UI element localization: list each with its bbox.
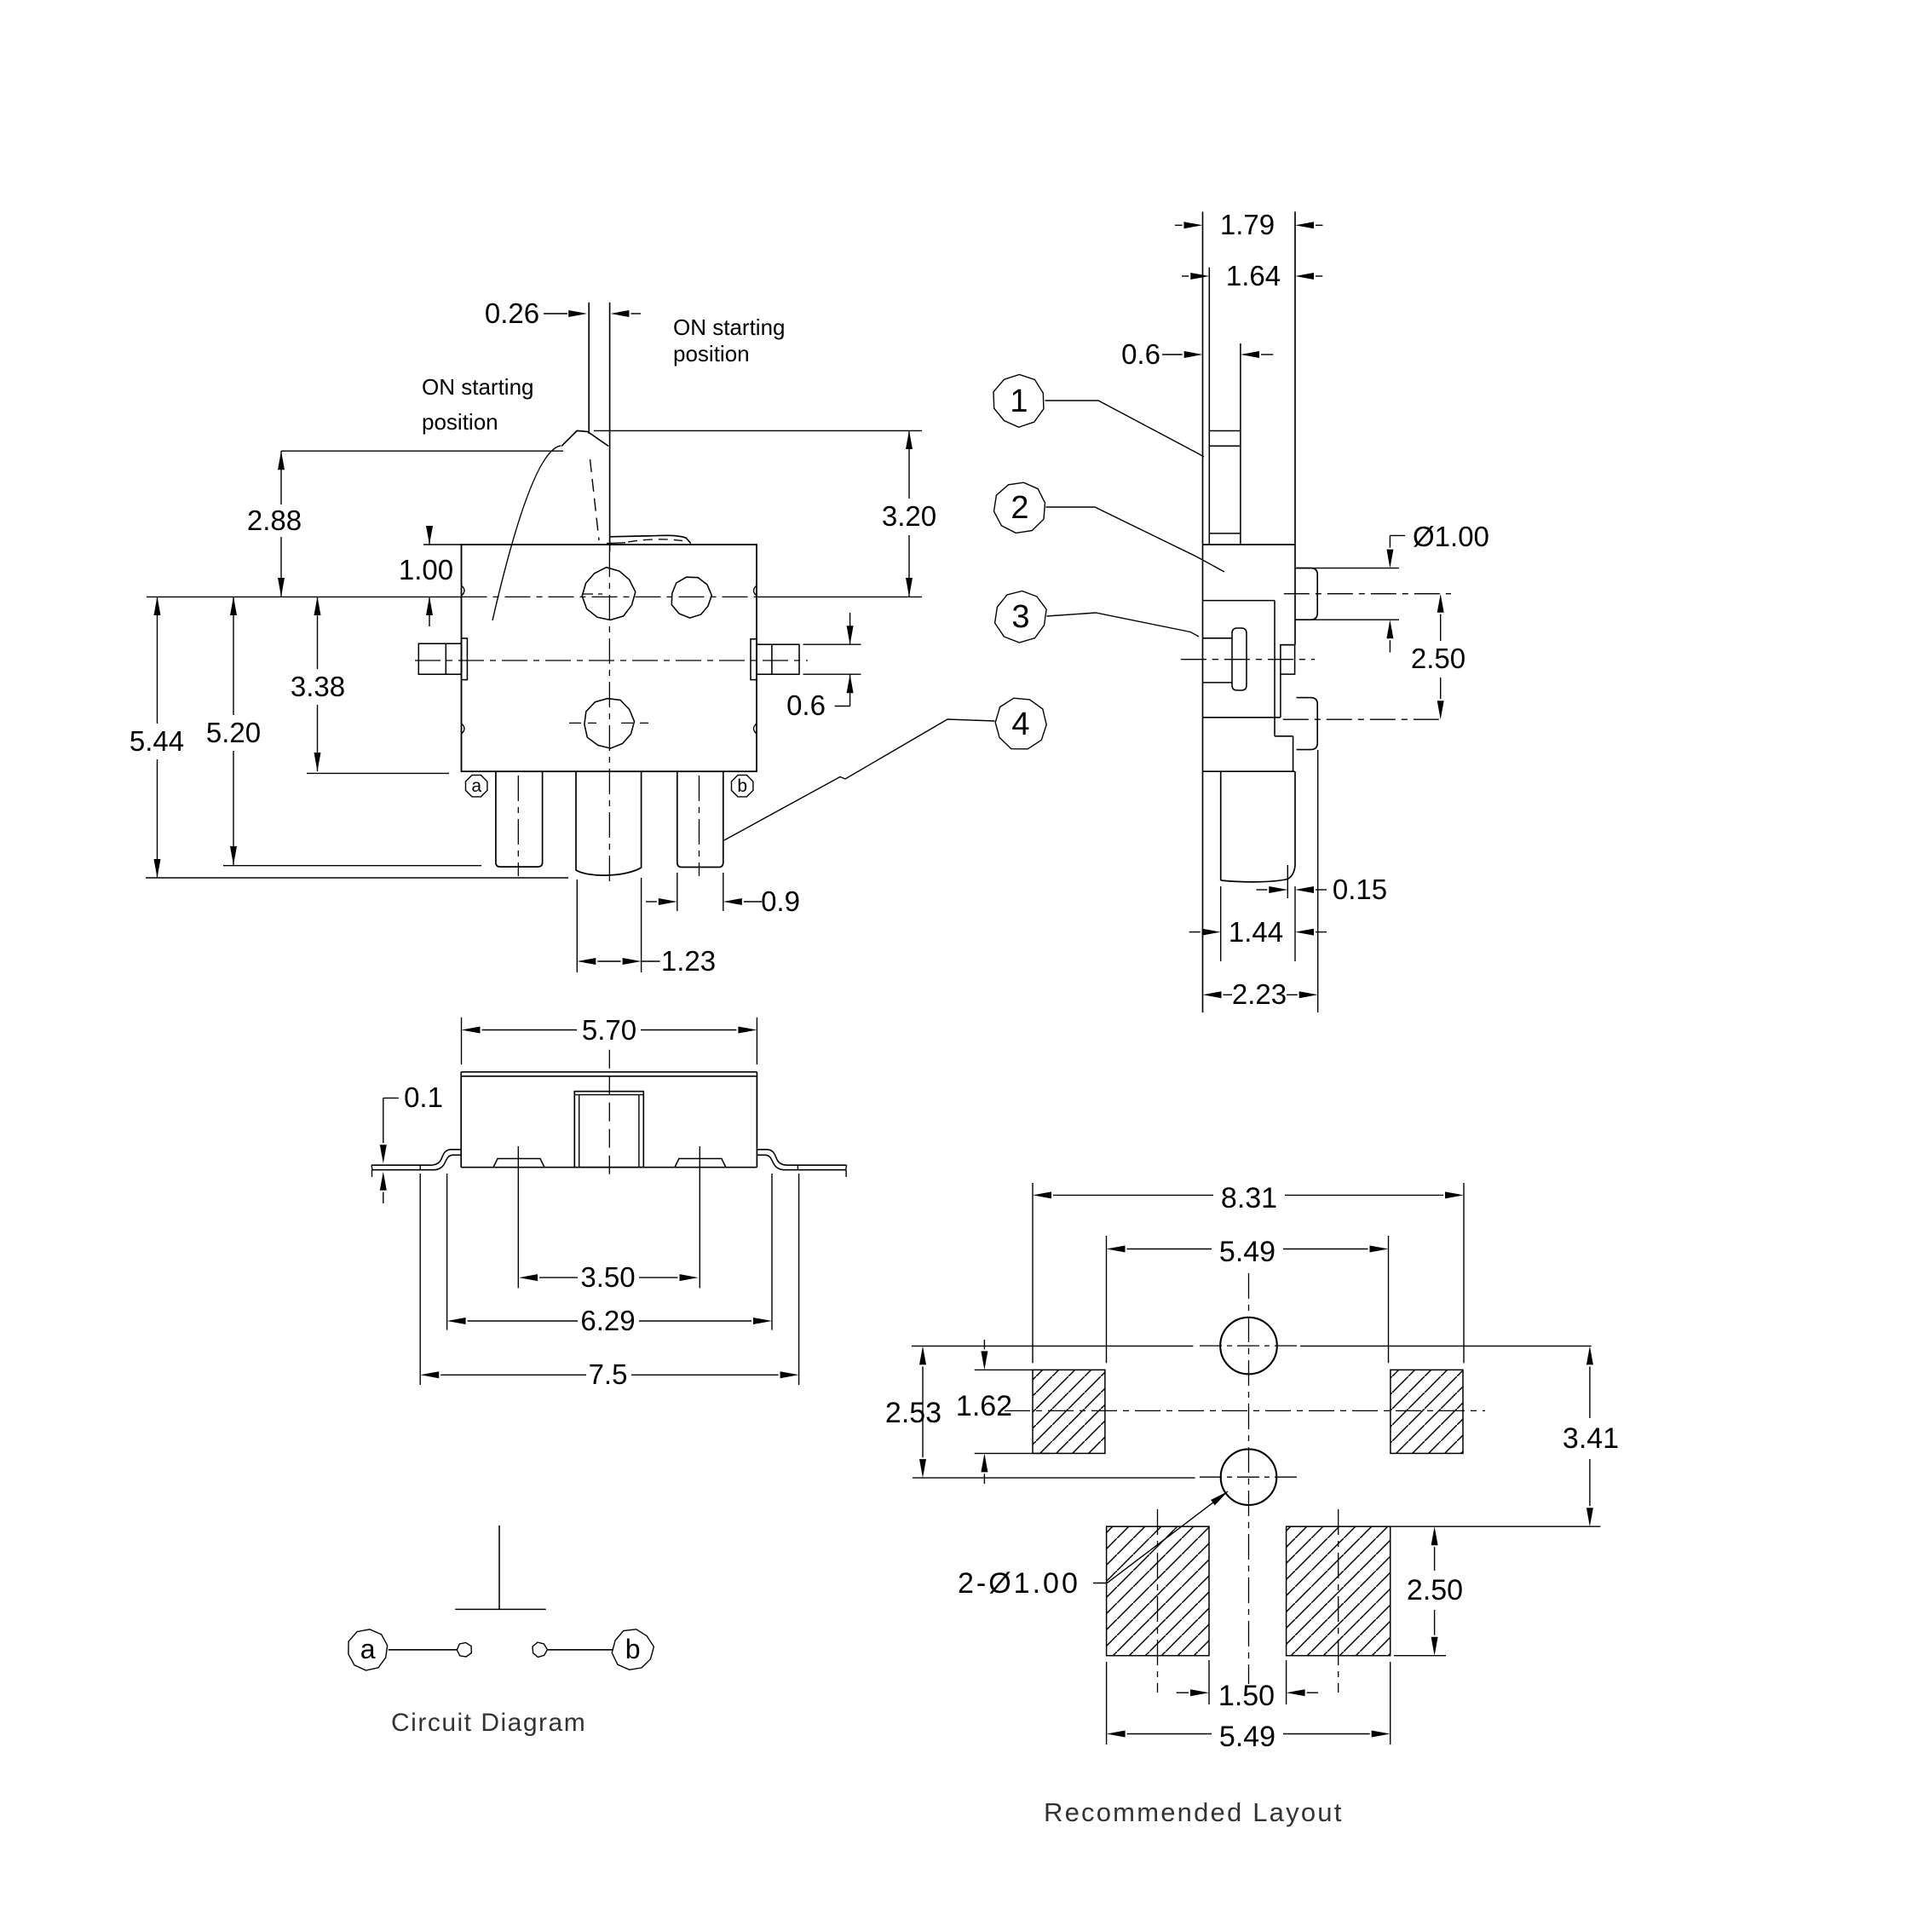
svg-text:Ø1.00: Ø1.00 — [1413, 521, 1489, 552]
front view: terminal label b — [732, 776, 753, 797]
svg-text:b: b — [625, 1634, 641, 1664]
svg-text:0.6: 0.6 — [1121, 338, 1160, 370]
svg-text:3.50: 3.50 — [580, 1261, 635, 1293]
side view: body outline — [1203, 211, 1296, 1012]
front view: right side tab — [751, 639, 799, 680]
svg-text:6.29: 6.29 — [580, 1305, 635, 1336]
svg-text:ON starting: ON starting — [422, 374, 534, 400]
label: ON starting position (right) — [673, 314, 786, 366]
front view: top cap mound — [607, 535, 691, 543]
svg-text:3.38: 3.38 — [291, 671, 345, 702]
svg-text:2: 2 — [1011, 490, 1028, 526]
dimension 0.6 (right tab) — [786, 613, 861, 721]
front view: left side tab — [418, 638, 467, 680]
svg-text:2.53: 2.53 — [885, 1397, 941, 1429]
svg-text:2.50: 2.50 — [1407, 1574, 1463, 1606]
layout: top-left pad (hatched) — [1033, 1370, 1105, 1453]
side view: contact spring hook — [1181, 628, 1315, 690]
caption: Circuit Diagram — [391, 1709, 586, 1737]
label 2-Dia1.00 with leader — [958, 1489, 1229, 1600]
dimension 1.23 — [577, 878, 716, 977]
dimension 2.53 (layout) — [885, 1346, 941, 1478]
layout: hole circles — [1220, 1318, 1277, 1505]
dimension 0.15 (side) — [1256, 874, 1387, 905]
label: ON starting position (left) — [422, 374, 534, 435]
bottom view: terminal bumps — [493, 1146, 726, 1288]
svg-text:0.15: 0.15 — [1333, 874, 1387, 905]
dimension 5.20 — [206, 597, 481, 866]
front view: centerlines — [147, 597, 922, 660]
bottom view: right mounting bracket — [757, 1150, 846, 1177]
dimension 0.1 (bracket thickness) — [380, 1081, 443, 1203]
front view: lever arm (ON starting position) — [492, 303, 610, 620]
dimension 1.44 (side) — [1189, 886, 1327, 961]
dimension 5.49 bottom (layout) — [1107, 1662, 1391, 1753]
dimension 3.20 — [594, 430, 936, 597]
dimension 3.41 (layout) — [1563, 1346, 1619, 1526]
dimension 1.50 (layout) — [1177, 1660, 1318, 1712]
front view: terminal label a — [466, 776, 487, 797]
dimension 1.64 (side) — [1182, 260, 1322, 291]
balloon 4 with leader — [724, 698, 1046, 840]
svg-text:3.41: 3.41 — [1563, 1422, 1619, 1455]
svg-text:5.49: 5.49 — [1219, 1236, 1275, 1268]
svg-text:5.20: 5.20 — [206, 717, 261, 748]
dimension 5.70 — [462, 1014, 757, 1064]
dimension 5.44 — [130, 597, 568, 878]
svg-text:ON starting: ON starting — [673, 314, 786, 340]
svg-text:a: a — [471, 776, 481, 796]
svg-text:5.44: 5.44 — [130, 725, 184, 757]
svg-text:a: a — [360, 1634, 376, 1664]
bottom view: left mounting bracket — [371, 1150, 461, 1177]
dimension 6.29 — [447, 1174, 772, 1336]
svg-text:2.50: 2.50 — [1411, 643, 1465, 674]
dimension 7.5 — [420, 1174, 798, 1390]
svg-text:3.20: 3.20 — [882, 500, 936, 532]
svg-text:position: position — [422, 409, 498, 435]
svg-text:position: position — [673, 341, 750, 366]
layout: reference lines — [912, 1346, 1601, 1655]
svg-text:1: 1 — [1010, 384, 1028, 419]
dimension Dia 1.00 (side) — [1297, 521, 1489, 653]
svg-text:1.23: 1.23 — [661, 945, 716, 977]
layout: top-right pad (hatched) — [1391, 1370, 1463, 1453]
balloon 1 with leader — [993, 375, 1204, 458]
circuit diagram: contact gap — [457, 1642, 547, 1658]
front view: switch body outline — [423, 545, 757, 771]
layout: centerlines — [1005, 1273, 1485, 1693]
side view: lower terminal pin — [1283, 698, 1441, 750]
svg-text:7.5: 7.5 — [589, 1358, 628, 1390]
svg-text:0.6: 0.6 — [786, 689, 826, 721]
circuit diagram: terminal b — [547, 1629, 654, 1670]
balloon 2 with leader — [994, 482, 1225, 572]
dimension 2.50 (layout) — [1407, 1526, 1463, 1656]
svg-text:Recommended Layout: Recommended Layout — [1044, 1797, 1344, 1827]
dimension 1.79 (side) — [1175, 209, 1323, 240]
dimension 0.26 — [485, 297, 641, 329]
dimension 2.88 — [247, 451, 563, 597]
svg-text:0.1: 0.1 — [404, 1081, 443, 1113]
svg-text:Circuit Diagram: Circuit Diagram — [391, 1709, 586, 1737]
svg-text:2.88: 2.88 — [247, 505, 302, 536]
balloon 3 with leader — [995, 591, 1199, 643]
svg-text:b: b — [737, 776, 747, 796]
layout: bottom-left pad (hatched) — [1107, 1526, 1209, 1656]
layout: bottom-right pad (hatched) — [1287, 1526, 1391, 1656]
dimension 2.23 (side) — [1203, 978, 1318, 1010]
circuit diagram: terminal a — [348, 1629, 457, 1670]
side view: lever strip — [1209, 268, 1241, 545]
dimension 0.6 (side strip) — [1121, 338, 1273, 370]
bottom view: housing outline — [461, 1072, 757, 1168]
front view: terminal pin b (right) — [677, 771, 723, 876]
dimension 5.49 top (layout) — [1107, 1236, 1389, 1363]
svg-text:5.70: 5.70 — [582, 1014, 636, 1046]
front view: hole circles — [569, 568, 711, 748]
svg-text:1.62: 1.62 — [956, 1390, 1012, 1422]
dimension 2.50 (side) — [1411, 594, 1465, 720]
svg-text:0.26: 0.26 — [485, 297, 539, 329]
dimension 1.62 (layout) — [956, 1340, 1050, 1484]
svg-text:0.9: 0.9 — [761, 885, 800, 917]
svg-text:3: 3 — [1011, 599, 1029, 635]
caption: Recommended Layout — [1044, 1797, 1344, 1827]
dimension 3.38 — [291, 597, 449, 773]
front view: center plunger pin — [576, 551, 642, 884]
front view: terminal pin a (left) — [496, 771, 543, 876]
dimension 1.00 — [399, 526, 453, 626]
svg-text:8.31: 8.31 — [1221, 1182, 1277, 1214]
svg-text:1.79: 1.79 — [1220, 209, 1275, 240]
circuit diagram: actuator symbol — [455, 1525, 546, 1609]
dimension 3.50 — [519, 1261, 699, 1293]
side view: bottom plunger pin — [1221, 750, 1318, 1012]
svg-text:5.49: 5.49 — [1219, 1721, 1275, 1753]
svg-text:2.23: 2.23 — [1232, 978, 1287, 1010]
side view: upper terminal pin — [1284, 568, 1451, 620]
front view: mold marks on body edges — [462, 585, 757, 734]
bottom view: center plunger — [574, 1050, 643, 1179]
svg-text:1.64: 1.64 — [1226, 260, 1281, 291]
svg-text:2-Ø1.00: 2-Ø1.00 — [958, 1567, 1080, 1600]
dimension 8.31 (layout) — [1033, 1182, 1464, 1363]
svg-text:1.50: 1.50 — [1218, 1680, 1275, 1712]
svg-text:1.00: 1.00 — [399, 554, 453, 585]
dimension 0.9 — [646, 873, 800, 917]
svg-text:4: 4 — [1011, 706, 1029, 742]
svg-text:1.44: 1.44 — [1229, 916, 1283, 948]
